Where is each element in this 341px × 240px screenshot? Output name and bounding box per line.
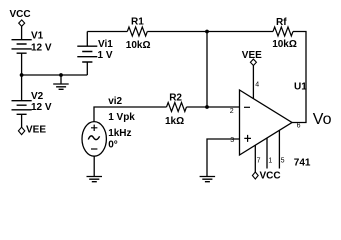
svg-text:vi2: vi2 [108,96,122,107]
svg-text:Vo: Vo [313,111,332,128]
svg-text:V2: V2 [31,91,44,102]
svg-text:10kΩ: 10kΩ [126,40,151,51]
svg-text:3: 3 [230,137,234,144]
svg-text:VCC: VCC [10,9,31,20]
svg-text:4: 4 [255,81,259,88]
svg-text:1kΩ: 1kΩ [165,116,184,127]
svg-text:VCC: VCC [260,171,281,182]
svg-text:VEE: VEE [242,50,262,61]
svg-text:U1: U1 [294,82,307,93]
svg-text:5: 5 [281,158,285,165]
svg-text:0°: 0° [108,139,118,150]
svg-text:1 V: 1 V [98,50,113,61]
svg-text:12 V: 12 V [31,42,52,53]
svg-text:Vi1: Vi1 [98,39,113,50]
svg-text:6: 6 [297,122,301,129]
svg-text:R2: R2 [169,92,182,103]
svg-text:12 V: 12 V [31,102,52,113]
svg-text:2: 2 [230,108,234,115]
svg-text:1 Vpk: 1 Vpk [108,112,135,123]
svg-text:V1: V1 [31,31,44,42]
svg-text:VEE: VEE [26,125,46,136]
svg-text:741: 741 [294,158,311,169]
svg-text:R1: R1 [131,17,144,28]
svg-text:Rf: Rf [276,17,287,28]
svg-text:1: 1 [268,158,272,165]
svg-text:7: 7 [257,158,261,165]
svg-text:1kHz: 1kHz [108,128,131,139]
svg-text:10kΩ: 10kΩ [272,39,297,50]
